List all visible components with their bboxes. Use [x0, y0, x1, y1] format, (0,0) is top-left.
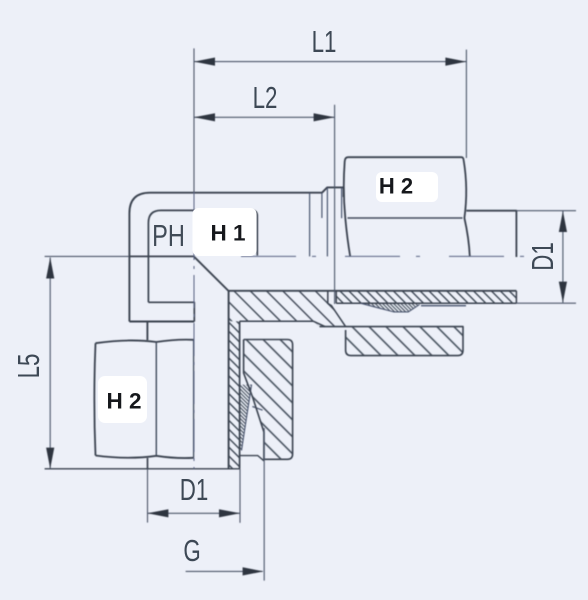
label box H2 right [376, 172, 438, 202]
label box H2 left [98, 376, 147, 423]
svg-text:H 2: H 2 [106, 389, 141, 414]
drill cone chamfer in bore corner [194, 256, 229, 291]
nut H2 horizontal section outline [320, 327, 464, 356]
horizontal tube wall outlines [336, 291, 516, 304]
svg-text:H 2: H 2 [379, 174, 413, 199]
nut H2 horizontal view outline [344, 157, 470, 256]
svg-text:PH: PH [152, 218, 185, 253]
svg-text:D1: D1 [526, 242, 560, 271]
svg-text:L1: L1 [312, 24, 337, 58]
standpipe bottom face [45, 468, 240, 470]
hatch: nut H2 vertical section block [244, 340, 293, 460]
body end face and skirt on horizontal port [240, 291, 346, 327]
hatch: vertical standpipe tube wall [229, 321, 240, 469]
nut H2 vertical view outline [94, 340, 193, 458]
cutting ring outline (vertical) [242, 385, 252, 451]
dimension D1 bottom [147, 469, 240, 523]
svg-text:D1: D1 [180, 472, 209, 506]
vertical bore wall / tube inner edge [228, 291, 230, 469]
thread zone lines on horizontal port [310, 188, 342, 257]
vertical tube outer edge [239, 321, 241, 469]
dimension D1 right [516, 211, 576, 304]
nut inner bore line (vertical port) [252, 407, 262, 411]
dimension G [186, 428, 265, 581]
hatch: vertical cutting ring [240, 385, 252, 451]
label box H1 [193, 208, 257, 256]
horizontal bore / tube inner line [229, 290, 517, 292]
svg-text:H 1: H 1 [210, 221, 245, 246]
component texts [106, 174, 413, 414]
svg-text:L2: L2 [253, 80, 278, 114]
centerline horizontal axis [241, 255, 545, 257]
dimension L1 [194, 48, 466, 192]
centerline vertical axis [193, 192, 195, 469]
hatch: nut H2 horizontal section block [346, 327, 463, 356]
svg-text:G: G [183, 533, 200, 567]
hatch: elbow body and vertical tube wall section [229, 291, 344, 327]
cutting ring outline (horizontal) [361, 303, 420, 312]
nut H2 vertical section outline [244, 340, 293, 460]
body hex wrench-flat inner contour (PH region) [148, 210, 257, 321]
dimension L5 [45, 256, 129, 468]
hatch: horizontal cutting ring [361, 303, 420, 312]
elbow body outline: top and left [129, 187, 343, 340]
svg-text:L5: L5 [12, 354, 46, 379]
dimension L2 [194, 105, 335, 304]
hatch: horizontal tube wall section [336, 291, 516, 304]
nut inner bore line (horizontal port) [421, 305, 466, 307]
nut bottom inner step (vertical port) [240, 456, 264, 461]
body section edge on horizontal centerline [129, 255, 193, 257]
tube edge below left nut [147, 458, 149, 469]
tube end above centerline [466, 211, 516, 257]
